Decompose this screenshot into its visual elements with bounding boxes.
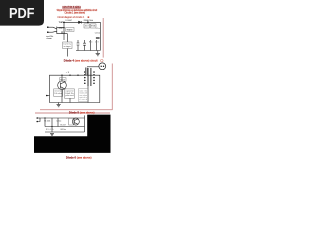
svg-text:R4: R4 bbox=[89, 42, 93, 44]
svg-text:C2 10u: C2 10u bbox=[56, 121, 61, 123]
svg-text:closed: closed bbox=[79, 99, 87, 101]
svg-text:BC547: BC547 bbox=[59, 27, 64, 30]
svg-text:ac mains: ac mains bbox=[46, 38, 52, 40]
svg-text:Diode 4 (see above) circuit: Diode 4 (see above) circuit bbox=[64, 58, 98, 62]
svg-text:RELAY 6V: RELAY 6V bbox=[67, 28, 74, 31]
svg-text:BC547: BC547 bbox=[60, 79, 65, 81]
svg-text:Diode 5 (see above): Diode 5 (see above) bbox=[69, 110, 95, 114]
svg-text:C1 10u: C1 10u bbox=[95, 32, 101, 34]
svg-text:PDF: PDF bbox=[9, 6, 35, 22]
svg-text:+9v: +9v bbox=[96, 28, 100, 30]
svg-text:C3: C3 bbox=[95, 42, 99, 44]
svg-text:D1 4007: D1 4007 bbox=[66, 20, 73, 22]
svg-text:BT136: BT136 bbox=[91, 26, 95, 28]
svg-text:10k ohm: 10k ohm bbox=[54, 93, 62, 95]
svg-text:LED 5m: LED 5m bbox=[60, 129, 66, 131]
svg-text:in stages: in stages bbox=[64, 45, 71, 48]
svg-text:R3 4.7k: R3 4.7k bbox=[46, 129, 54, 131]
svg-text:Diode 6 (see above): Diode 6 (see above) bbox=[66, 156, 92, 160]
svg-text:polarised: polarised bbox=[65, 94, 73, 97]
svg-text:Circuit diagram of circuits 1: Circuit diagram of circuits 1 bbox=[57, 15, 84, 19]
svg-text:R1 100k: R1 100k bbox=[44, 121, 50, 123]
svg-text:Circuits 1 (see above): Circuits 1 (see above) bbox=[65, 10, 86, 14]
svg-text:230V AC 50Hz: 230V AC 50Hz bbox=[84, 19, 94, 22]
svg-text:4007: 4007 bbox=[85, 26, 89, 28]
svg-text:BC557: BC557 bbox=[60, 125, 66, 127]
